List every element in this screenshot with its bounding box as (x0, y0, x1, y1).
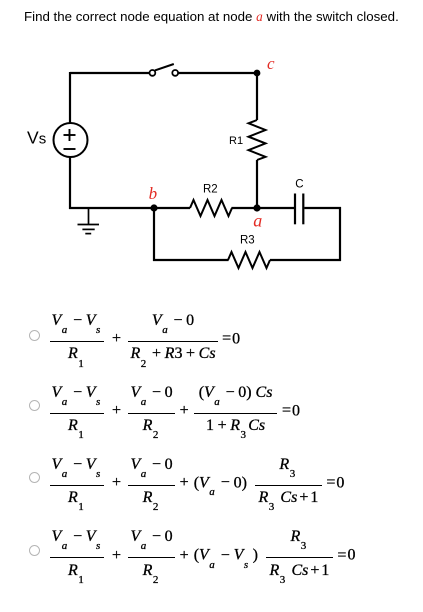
svg-text:a: a (253, 211, 262, 231)
voltage source minus sign (64, 148, 76, 150)
capacitor C plates (295, 194, 303, 225)
voltage source Vs circle (54, 123, 88, 157)
node b junction (150, 204, 157, 211)
wire node b vertical (153, 208, 155, 261)
voltage source plus sign (64, 129, 76, 141)
svg-text:C: C (295, 178, 303, 190)
wire switch to node c (178, 72, 257, 74)
svg-text:b: b (149, 184, 158, 203)
option 3 radio (29, 472, 40, 483)
circuit schematic (0, 0, 423, 300)
option 4 equation (50, 529, 356, 577)
wire bottom horizontal left of R3 (153, 259, 229, 261)
wire right vertical (339, 207, 341, 261)
option 4 radio (29, 545, 40, 556)
svg-text:R3: R3 (240, 234, 255, 246)
resistor R3 (228, 252, 270, 268)
wire bottom left horizontal (69, 207, 190, 209)
node c junction (254, 70, 261, 77)
switch blade (155, 64, 174, 70)
wire node c vertical (256, 73, 258, 120)
wire R1 to node a (256, 160, 258, 208)
svg-text:R2: R2 (203, 184, 218, 196)
switch SW1 contacts (150, 70, 179, 76)
svg-text:R1: R1 (229, 135, 243, 147)
resistor R1 (249, 120, 266, 160)
node a junction (253, 204, 260, 211)
wire bottom horizontal right of R3 (270, 259, 341, 261)
svg-text:c: c (267, 54, 275, 73)
option 3 equation (50, 457, 345, 505)
wire R2 to node a to capacitor (232, 207, 295, 209)
wire capacitor to right corner (304, 207, 341, 209)
option 1 radio (29, 330, 40, 341)
wire top left horizontal (70, 72, 149, 74)
wire left vertical upper (69, 72, 71, 123)
resistor R2 (190, 200, 232, 216)
wire left vertical lower (69, 157, 71, 209)
option 1 equation (50, 313, 241, 361)
option 2 equation (50, 385, 300, 433)
svg-text:Vs: Vs (27, 128, 46, 148)
ground (78, 209, 100, 234)
option 2 radio (29, 400, 40, 411)
